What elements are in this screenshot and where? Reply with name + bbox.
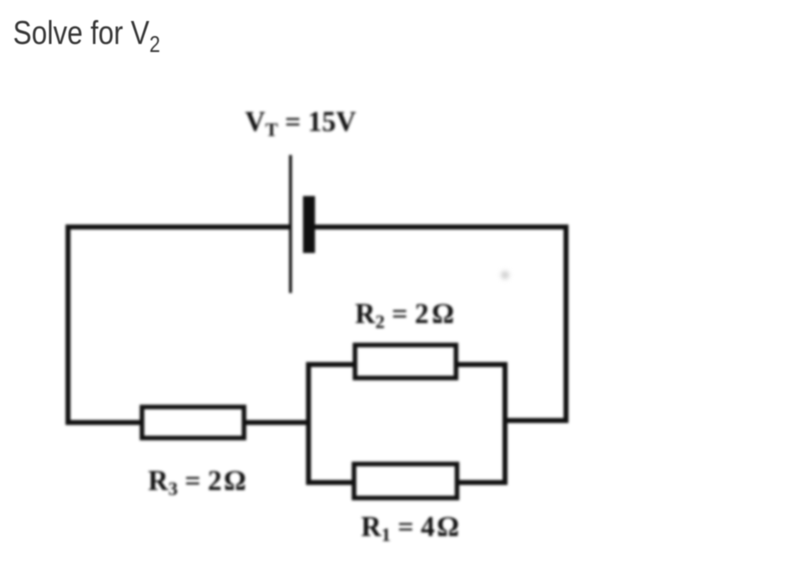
- svg-text:R1 = 4Ω: R1 = 4Ω: [361, 512, 459, 546]
- svg-text:R3 = 2Ω: R3 = 2Ω: [148, 466, 246, 500]
- svg-text:VT = 15V: VT = 15V: [245, 107, 356, 141]
- svg-text:R2 = 2Ω: R2 = 2Ω: [355, 299, 454, 333]
